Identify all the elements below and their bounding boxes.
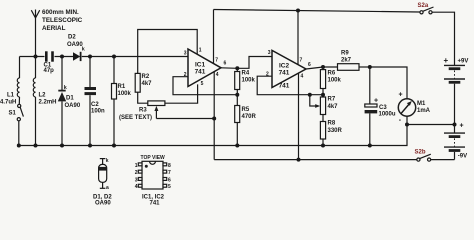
svg-text:741: 741 (279, 70, 290, 77)
node wiper takeoff (308, 93, 312, 97)
wire main signal line (20, 56, 189, 58)
svg-text:R3: R3 (139, 108, 147, 114)
capacitor C3 (365, 67, 396, 146)
svg-text:D1: D1 (66, 96, 74, 102)
svg-text:+: + (399, 91, 403, 98)
wire IC1 pin4 down to -rail (213, 72, 215, 160)
svg-text:OA90: OA90 (95, 200, 111, 206)
svg-text:2: 2 (135, 170, 138, 176)
svg-text:741: 741 (195, 69, 206, 76)
node C3 bottom on 0V bus (368, 144, 372, 148)
svg-text:5: 5 (168, 184, 171, 190)
svg-text:k: k (64, 85, 67, 91)
svg-text:R6: R6 (328, 71, 336, 77)
wire IC2 output (306, 67, 338, 69)
svg-text:4k7: 4k7 (328, 104, 339, 110)
inductor L2 (33, 57, 56, 146)
wire -9V rail (214, 159, 454, 161)
switch S2a (418, 3, 434, 14)
svg-text:R4: R4 (242, 70, 250, 76)
op-amp IC2 (272, 50, 306, 87)
svg-text:7: 7 (215, 58, 218, 64)
diode D1 (58, 57, 81, 146)
wire output jog to IC2 pin3 (237, 57, 272, 69)
wire R3 right to pin 5 (165, 84, 198, 103)
svg-text:600mm MIN.: 600mm MIN. (42, 9, 79, 16)
svg-text:IC1: IC1 (195, 62, 206, 69)
node battery mid junction (453, 123, 457, 127)
svg-text:8: 8 (168, 163, 171, 169)
svg-text:L2: L2 (39, 93, 47, 99)
resistor R8 (320, 121, 342, 146)
node C3 top junction (368, 65, 372, 69)
battery B2 -9V (444, 125, 467, 160)
svg-text:6: 6 (308, 62, 311, 68)
svg-text:100k: 100k (118, 91, 132, 97)
capacitor C2 (85, 57, 106, 146)
svg-text:+: + (460, 123, 464, 130)
resistor R4 (235, 68, 256, 94)
svg-text:100n: 100n (91, 109, 105, 115)
svg-text:1000u: 1000u (379, 111, 396, 117)
svg-text:1mA: 1mA (417, 108, 431, 114)
svg-text:R2: R2 (142, 74, 150, 80)
aerial label (42, 9, 83, 32)
svg-text:3: 3 (135, 177, 138, 183)
wire aerial lead (35, 18, 37, 57)
svg-text:OA90: OA90 (65, 103, 81, 109)
svg-text:a: a (106, 185, 109, 191)
resistor R3 (preset) (119, 101, 165, 121)
svg-text:6: 6 (168, 177, 171, 183)
svg-text:TOP VIEW: TOP VIEW (141, 155, 166, 161)
wire R9 to meter corner (370, 67, 407, 99)
svg-text:5: 5 (201, 81, 204, 87)
svg-text:AERIAL: AERIAL (42, 25, 66, 32)
node S1 bottom on 0V bus (17, 144, 21, 148)
diode package drawing D1 D2 (93, 158, 112, 207)
svg-text:R1: R1 (118, 84, 126, 90)
svg-text:+: + (444, 56, 449, 65)
wire IC1 pin7 to +rail (213, 10, 215, 64)
svg-text:4: 4 (301, 73, 304, 79)
svg-text:2.2mH: 2.2mH (39, 100, 57, 106)
svg-text:M1: M1 (417, 101, 426, 107)
aerial symbol (31, 10, 39, 19)
node IC1 output / R4 (235, 66, 239, 70)
svg-text:470R: 470R (242, 114, 257, 120)
wire R2 bottom to R3 (138, 92, 148, 103)
svg-text:100k: 100k (242, 77, 256, 83)
svg-text:R5: R5 (242, 107, 250, 113)
svg-text:-9V: -9V (458, 153, 467, 159)
wire offset-null top loop (pin1 to R2) (138, 30, 198, 74)
svg-text:4k7: 4k7 (142, 81, 153, 87)
svg-text:47p: 47p (44, 68, 55, 74)
svg-text:4: 4 (216, 72, 219, 78)
op-amp IC1 (188, 49, 221, 87)
svg-text:k: k (106, 158, 109, 164)
resistor R2 (135, 73, 152, 92)
resistor R7 (preset) (320, 95, 338, 122)
node R1 top junction (112, 55, 116, 59)
switch S2b (415, 150, 431, 162)
svg-text:(SEE TEXT): (SEE TEXT) (119, 115, 152, 121)
svg-text:4: 4 (135, 184, 138, 190)
node R8 bottom on 0V bus (321, 144, 325, 148)
node D1 bottom on 0V bus (60, 144, 64, 148)
wire IC2 pin2 loop to R6/R7 junction (257, 76, 323, 95)
svg-text:741: 741 (279, 83, 290, 90)
svg-text:k: k (82, 47, 85, 53)
node R6/R7 junction (321, 93, 325, 97)
capacitor C1 (44, 51, 55, 74)
resistor R9 (338, 51, 370, 71)
node R3 wiper / IC1 pin4 junction (212, 117, 216, 121)
resistor R1 (112, 57, 132, 146)
svg-text:C3: C3 (379, 105, 387, 111)
wire 0V bus (19, 125, 407, 146)
svg-text:+9V: +9V (458, 58, 469, 64)
svg-text:100k: 100k (328, 78, 342, 84)
svg-text:S2a: S2a (418, 3, 429, 9)
node IC2 output / R6 top (321, 65, 325, 69)
wire R7 wiper arm (310, 95, 320, 108)
node aerial/L2 junction (34, 55, 38, 59)
svg-text:3: 3 (184, 51, 187, 57)
svg-text:IC2: IC2 (279, 63, 290, 70)
node IC2 pin4 on -rail (297, 158, 301, 162)
node meter bottom junction (405, 123, 409, 127)
wire meter bottom to battery junction (407, 116, 455, 124)
svg-text:2k7: 2k7 (341, 58, 352, 64)
svg-text:S2b: S2b (415, 150, 426, 156)
svg-text:3: 3 (268, 50, 271, 56)
node C2 bottom on 0V bus (88, 144, 92, 148)
node R4/R5 junction (235, 93, 239, 97)
inductor L1 (0, 57, 20, 106)
meter M1 (398, 91, 430, 124)
IC package drawing top view (135, 155, 171, 206)
node C2 top junction (88, 55, 92, 59)
svg-text:330R: 330R (328, 128, 343, 134)
switch S1 (9, 97, 24, 146)
svg-text:+: + (374, 97, 378, 104)
node D1 top junction (60, 55, 64, 59)
svg-text:R7: R7 (328, 97, 336, 103)
wire IC1 pin2 loop to R4/R5 junction (173, 77, 237, 95)
svg-text:TELESCOPIC: TELESCOPIC (42, 17, 83, 24)
resistor R6 (320, 67, 341, 95)
diode D2 (67, 35, 85, 62)
wire IC2 pin7 to +rail (297, 11, 299, 65)
battery B1 +9V (444, 56, 469, 125)
wire R3 wiper arm to V- rail (154, 106, 214, 119)
wire IC2 pin4 down to -rail (298, 73, 300, 160)
svg-text:C2: C2 (91, 102, 99, 108)
wire IC1 output (221, 67, 237, 70)
node R5 bottom on 0V bus (235, 144, 239, 148)
svg-text:7: 7 (300, 58, 303, 64)
svg-text:R9: R9 (341, 51, 349, 57)
svg-text:D2: D2 (68, 35, 76, 41)
node L2 bottom on 0V bus (34, 144, 38, 148)
resistor R5 (235, 95, 257, 146)
wire +rail top (214, 10, 455, 66)
svg-text:L1: L1 (7, 92, 15, 98)
svg-text:6: 6 (224, 61, 227, 67)
svg-text:741: 741 (150, 200, 161, 206)
svg-text:7: 7 (168, 170, 171, 176)
svg-text:R8: R8 (328, 121, 336, 127)
svg-text:S1: S1 (9, 111, 17, 117)
svg-text:4.7uH: 4.7uH (0, 100, 16, 106)
node R1 bottom on 0V bus (112, 144, 116, 148)
svg-text:1: 1 (199, 48, 202, 54)
svg-text:1: 1 (135, 163, 138, 169)
node IC2 pin7 on +rail (296, 9, 300, 13)
